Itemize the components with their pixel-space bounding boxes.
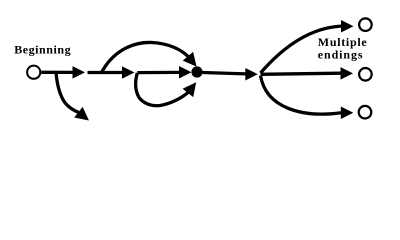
node end circle top bbox=[359, 18, 372, 31]
wire start to arrow1 bbox=[41, 71, 73, 74]
node start circle bbox=[27, 66, 40, 79]
arrowhead fan-middle bbox=[341, 67, 354, 80]
wire dot to fan junction bbox=[203, 73, 247, 74]
node end circle middle bbox=[359, 68, 372, 81]
svg-text:Beginning: Beginning bbox=[14, 43, 71, 57]
node end circle bottom bbox=[359, 106, 372, 119]
wire fan top curve bbox=[261, 26, 342, 73]
arrowhead dead-end bbox=[74, 107, 89, 121]
node mid dot bbox=[191, 66, 202, 77]
arrowhead arrow1 bbox=[73, 66, 86, 79]
wire lower loop arc bbox=[136, 73, 188, 106]
arrowhead arrow2 bbox=[122, 66, 135, 79]
wire dead-end branch curve bbox=[56, 73, 79, 113]
arrowhead arrow3 bbox=[179, 66, 192, 79]
svg-text:endings: endings bbox=[318, 47, 364, 61]
wire fan bottom curve bbox=[261, 76, 342, 114]
arrowhead lower-arc bbox=[183, 82, 197, 97]
arrowhead arrow4 bbox=[245, 68, 257, 81]
wire segment3 bbox=[137, 71, 179, 74]
wire fan middle line bbox=[261, 73, 341, 74]
wire segment2 bbox=[88, 71, 123, 74]
wire upper loop arc bbox=[101, 42, 188, 73]
arrowhead upper-arc bbox=[183, 52, 197, 67]
arrowhead fan-bottom bbox=[341, 107, 354, 120]
arrowhead fan-top bbox=[341, 20, 354, 33]
